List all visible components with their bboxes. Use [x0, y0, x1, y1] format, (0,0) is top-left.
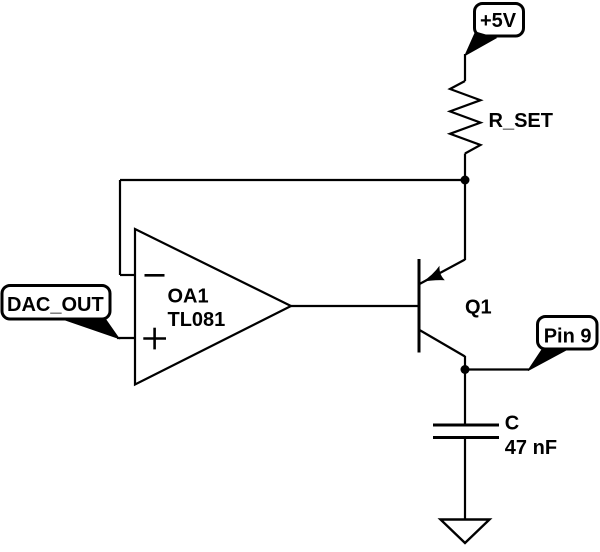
wire +5V to resistor top [464, 54, 466, 81]
wire emitter vertical to junction [464, 180, 466, 260]
svg-text:C: C [505, 413, 519, 435]
wire DAC_OUT to non-inverting input [117, 337, 136, 339]
transistor Q1 [419, 259, 492, 357]
svg-text:OA1: OA1 [168, 286, 209, 308]
net Pin 9 flag [528, 317, 597, 371]
svg-text:TL081: TL081 [168, 309, 226, 331]
wire feedback vertical [119, 180, 121, 275]
wire stub to inverting input [120, 274, 135, 276]
svg-text:Pin 9: Pin 9 [544, 326, 592, 348]
svg-text:DAC_OUT: DAC_OUT [7, 294, 104, 316]
wire op-amp output to base [291, 305, 419, 307]
svg-text:R_SET: R_SET [489, 110, 553, 132]
wire node to Pin 9 flag [465, 368, 529, 370]
node junction resistor/feedback/emitter [461, 176, 470, 185]
net +5V flag [465, 4, 524, 56]
svg-text:Q1: Q1 [465, 297, 492, 319]
wire resistor bottom to junction [464, 154, 466, 181]
net DAC_OUT flag [2, 286, 119, 339]
wire node to capacitor [464, 370, 466, 426]
ground [441, 520, 490, 544]
wire capacitor to ground [464, 438, 466, 520]
svg-text:47 nF: 47 nF [505, 437, 557, 459]
wire feedback horizontal [120, 179, 465, 181]
svg-text:+5V: +5V [480, 10, 517, 32]
resistor R_SET [450, 81, 553, 154]
capacitor C 47nF [433, 413, 557, 460]
wire collector vertical to node [464, 356, 466, 370]
op-amp OA1 TL081 [135, 229, 291, 385]
node junction collector/cap/pin9 [461, 365, 470, 374]
